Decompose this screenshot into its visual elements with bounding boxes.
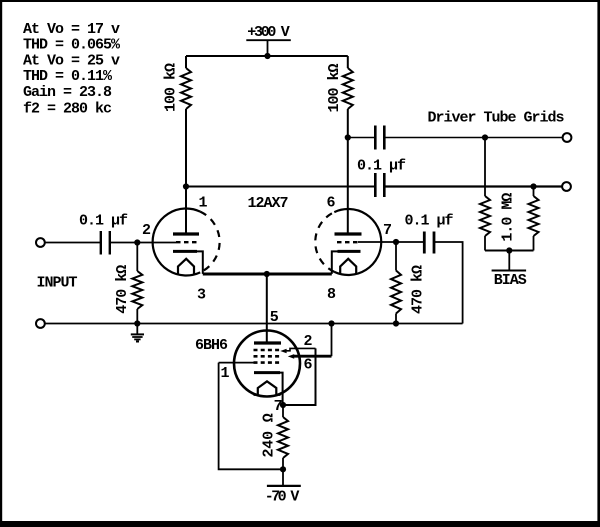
svg-text:7: 7: [383, 222, 391, 239]
pin 3: [197, 287, 206, 304]
terminal input upper: [36, 238, 45, 247]
wire ground rail: [45, 323, 463, 325]
terminal BIAS: [492, 271, 527, 289]
label 12AX7: [248, 195, 288, 212]
svg-text:8: 8: [327, 286, 336, 303]
tube V1B 12AX7 right envelope: [315, 209, 381, 275]
pin 2: [142, 222, 151, 239]
node R7 bottom junction: [280, 466, 286, 472]
pin 6 label: [304, 357, 313, 374]
node bias junction: [506, 247, 512, 253]
svg-text:3: 3: [197, 287, 206, 304]
terminal lower output: [562, 182, 571, 191]
pin 7 label: [274, 398, 282, 415]
V2 grid g1: [254, 361, 281, 364]
svg-text:0.1 μf: 0.1 μf: [79, 212, 128, 229]
terminal upper output: [563, 133, 572, 142]
svg-text:1: 1: [199, 195, 208, 212]
node lower output junction: [530, 183, 536, 189]
resistor R1 100k left plate: [181, 56, 191, 109]
svg-text:Gain = 23.8: Gain = 23.8: [23, 84, 112, 101]
svg-text:470 kΩ: 470 kΩ: [410, 265, 427, 314]
svg-text:INPUT: INPUT: [37, 275, 78, 292]
wire B+ rail: [186, 55, 348, 57]
pin 7: [383, 222, 391, 239]
tube V1A 12AX7 left envelope: [153, 209, 220, 276]
svg-text:THD = 0.065%: THD = 0.065%: [23, 37, 121, 54]
pin 1: [199, 195, 208, 212]
V2 cathode: [254, 373, 283, 405]
power -70V terminal: [265, 469, 301, 505]
label R1 100 kOhm: [163, 63, 180, 112]
svg-text:At Vo = 25 v: At Vo = 25 v: [23, 52, 120, 69]
label C4 0.1 uf: [405, 212, 454, 229]
tube V2 6BH6 envelope: [234, 331, 300, 397]
resistor R3 470k left: [132, 243, 142, 324]
svg-text:100 kΩ: 100 kΩ: [163, 63, 180, 112]
svg-text:0.1 μf: 0.1 μf: [405, 212, 454, 229]
pin 5: [270, 309, 279, 326]
V2 grid g2: [254, 355, 281, 358]
pin 6: [327, 195, 336, 212]
resistor R6 1.0M right: [529, 187, 539, 251]
svg-text:240 Ω: 240 Ω: [260, 413, 277, 457]
node right grid junction: [393, 239, 399, 245]
wire link to V2 plate: [266, 274, 268, 343]
svg-text:100 kΩ: 100 kΩ: [326, 64, 343, 113]
node B+ junction: [264, 53, 270, 59]
svg-text:6: 6: [327, 195, 336, 212]
svg-text:2: 2: [142, 222, 151, 239]
svg-text:Driver Tube Grids: Driver Tube Grids: [428, 109, 565, 126]
V2 grid g3: [254, 349, 281, 352]
pin 2 label: [304, 333, 313, 350]
svg-text:+300 V: +300 V: [247, 24, 290, 41]
wire bias bus: [485, 251, 534, 271]
svg-text:6: 6: [304, 357, 313, 374]
label Driver Tube Grids: [428, 109, 565, 126]
wire right plate lead: [347, 109, 349, 234]
svg-text:BIAS: BIAS: [494, 272, 527, 289]
annotation: performance stats: [23, 21, 121, 117]
node ground junction: [134, 320, 140, 326]
capacitor C3 0.1uf lower: [375, 173, 384, 197]
label INPUT: [37, 275, 78, 292]
node upper output junction: [482, 134, 488, 140]
V1A cathode: [173, 251, 203, 274]
svg-text:-70 V: -70 V: [265, 489, 300, 506]
wire input to cap: [45, 242, 100, 244]
svg-text:At Vo = 17 v: At Vo = 17 v: [23, 21, 120, 38]
V1B cathode: [332, 251, 361, 274]
label 6BH6: [195, 337, 228, 354]
wire cathode link: [203, 273, 332, 276]
label R7 240 Ohm: [260, 413, 277, 457]
V2 heater: [254, 381, 281, 395]
capacitor C2 0.1uf upper: [375, 126, 384, 150]
V1B heater: [340, 259, 356, 275]
pin 1 label: [221, 365, 230, 382]
svg-text:12AX7: 12AX7: [248, 195, 288, 212]
resistor R7 240 ohm: [278, 405, 288, 469]
pin 8: [327, 286, 336, 303]
resistor R2 100k right plate: [343, 56, 353, 109]
svg-text:7: 7: [274, 398, 282, 415]
wire left plate lead: [185, 109, 187, 234]
node g2 rail junction: [328, 320, 334, 326]
label C1 0.1 uf: [79, 212, 128, 229]
capacitor C1 0.1uf input: [101, 231, 110, 255]
wire lower output line: [186, 186, 562, 188]
V1A heater: [178, 259, 194, 275]
resistor R4 470k right: [391, 242, 401, 324]
capacitor C4 0.1uf right: [424, 232, 434, 254]
node right plate junction: [345, 134, 351, 140]
V1B grid: [337, 241, 358, 243]
label R3 470 kOhm: [114, 265, 131, 314]
ground symbol: [131, 324, 144, 342]
pin 2 g3 tie: [280, 348, 315, 405]
label R4 470 kOhm: [410, 265, 427, 314]
svg-text:5: 5: [270, 309, 279, 326]
terminal input lower: [36, 319, 45, 328]
wire V1B grid lead: [358, 241, 396, 243]
node left grid junction: [134, 239, 140, 245]
svg-text:2: 2: [304, 333, 313, 350]
V2 plate: [254, 341, 281, 344]
svg-text:THD = 0.11%: THD = 0.11%: [23, 68, 113, 85]
wire g1 loop: [219, 363, 283, 470]
svg-text:0.1 μf: 0.1 μf: [357, 157, 406, 174]
wire C4 to ground rail: [396, 242, 463, 324]
node R4 bottom junction: [393, 320, 399, 326]
node left plate junction: [183, 183, 189, 189]
node cathode link junction: [264, 271, 270, 277]
label C2 0.1 uf: [357, 157, 406, 174]
V1A plate: [173, 232, 199, 235]
svg-text:f2 = 280 kc: f2 = 280 kc: [23, 100, 112, 117]
svg-text:1.0 MΩ: 1.0 MΩ: [499, 193, 516, 242]
label R2 100 kOhm: [326, 64, 343, 113]
svg-text:1: 1: [221, 365, 230, 382]
label 1.0 MOhm: [499, 193, 516, 242]
power +300V terminal: [246, 24, 290, 56]
pin 6 g2 tie: [288, 324, 332, 359]
resistor R5 1.0M left: [480, 138, 490, 251]
svg-text:6BH6: 6BH6: [195, 337, 228, 354]
wire upper output line: [348, 137, 563, 139]
wire cap to grid V1: [111, 242, 176, 244]
V1A grid: [176, 241, 197, 243]
node cathode junction: [280, 402, 286, 408]
V1B plate: [335, 232, 362, 235]
svg-text:470 kΩ: 470 kΩ: [114, 265, 131, 314]
